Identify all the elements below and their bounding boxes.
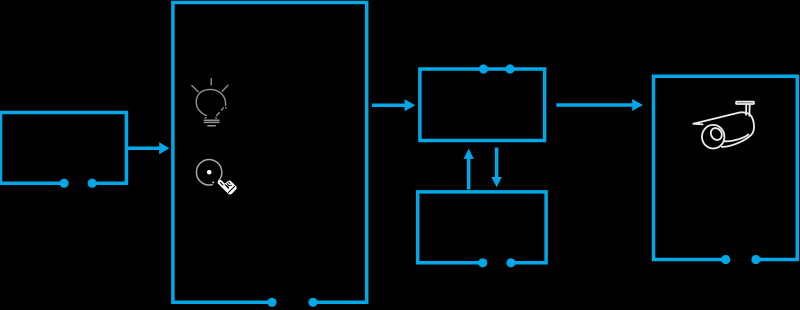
arrow A3 (B3 to B4) [556, 99, 643, 111]
arrow A5 (B3 down to B5) [491, 148, 501, 188]
icon cctv camera in B4 [693, 102, 754, 149]
connector dots of B5 [478, 258, 487, 267]
arrow A2 (B2 to B3) [372, 99, 415, 111]
icon lightbulb (idea) in B2 [192, 79, 228, 126]
box B5 (lower middle block) [418, 192, 546, 268]
box B4 (right camera block) [654, 76, 798, 264]
arrow A1 (B1 to B2) [127, 142, 169, 154]
icon click/press (circle with dot and hand cursor) in B2 [196, 160, 236, 195]
box B3 (upper middle block) [420, 64, 545, 140]
connector dots of B3 [479, 64, 488, 73]
box B1 (left input block) [1, 113, 127, 188]
connector dots of B2 [267, 298, 276, 307]
arrow A4 (B5 up to B3) [464, 149, 474, 190]
connector dots of B1 [60, 179, 69, 188]
box B2 (tall controller block with icons) [173, 3, 367, 307]
connector dots of B4 [721, 255, 730, 264]
